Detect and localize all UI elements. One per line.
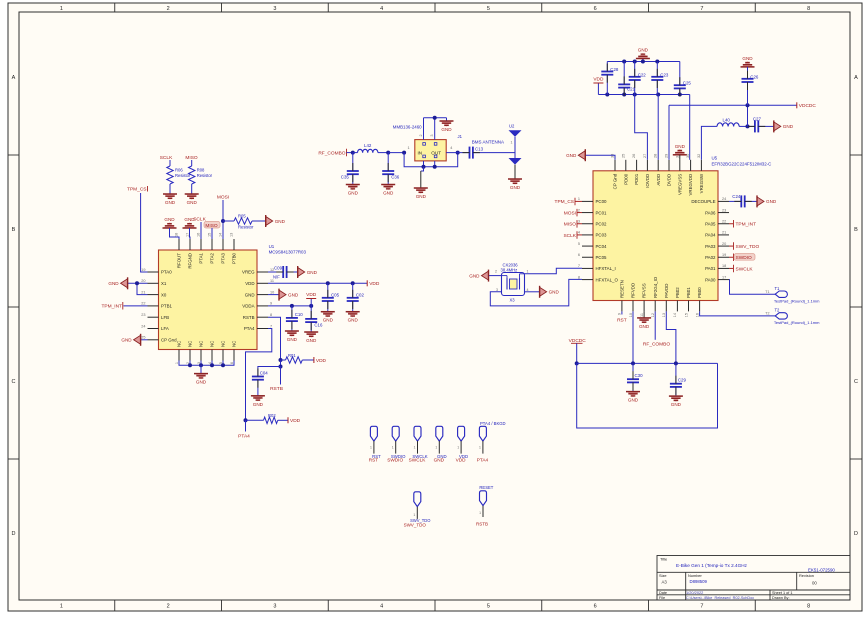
- svg-text:GND: GND: [416, 194, 427, 199]
- svg-text:17: 17: [722, 275, 726, 279]
- ground below antenna: [508, 179, 522, 190]
- svg-text:R02: R02: [268, 413, 276, 418]
- svg-text:Resistor: Resistor: [238, 225, 254, 230]
- svg-text:GND: GND: [549, 290, 560, 295]
- svg-text:14: 14: [219, 233, 223, 237]
- svg-text:PC02: PC02: [596, 221, 608, 226]
- wire L42 to C36 node: [378, 152, 388, 154]
- svg-text:4: 4: [450, 146, 452, 150]
- svg-text:1: 1: [408, 146, 410, 150]
- svg-text:GND: GND: [121, 338, 132, 343]
- junction rail b4: [656, 93, 660, 97]
- junction VDCDC/C26: [746, 103, 750, 107]
- svg-text:VREGSW: VREGSW: [699, 173, 704, 193]
- testpoint TP4 (GND): [434, 426, 447, 462]
- svg-text:17: 17: [186, 233, 190, 237]
- svg-text:U5: U5: [712, 156, 718, 161]
- svg-text:VREGVDD: VREGVDD: [688, 174, 693, 196]
- svg-text:DECOUPLE: DECOUPLE: [691, 199, 715, 204]
- svg-text:4: 4: [380, 604, 383, 610]
- wire TPM_CS to PTA0: [141, 193, 148, 272]
- capacitor C28: [601, 62, 619, 95]
- svg-text:C02: C02: [356, 292, 365, 297]
- junction rail t1: [622, 60, 626, 64]
- svg-text:25: 25: [621, 154, 625, 158]
- svg-text:9: 9: [270, 302, 272, 306]
- svg-text:PD01: PD01: [634, 173, 639, 185]
- svg-text:LFB: LFB: [161, 315, 169, 320]
- testpoint TP1 (RST): [369, 426, 381, 462]
- svg-text:GND: GND: [383, 191, 394, 196]
- svg-text:NC: NC: [188, 341, 193, 347]
- svg-text:GND: GND: [348, 318, 359, 323]
- net label MISO on PC02: [564, 220, 582, 228]
- net label MISO (pulldown R08): [185, 155, 198, 166]
- svg-text:7: 7: [270, 324, 272, 328]
- svg-text:C24: C24: [732, 194, 741, 199]
- junction rail b3: [633, 93, 637, 97]
- svg-text:GND: GND: [165, 200, 176, 205]
- junction RSTB/R01: [279, 358, 283, 362]
- svg-text:RST: RST: [369, 458, 379, 463]
- capacitor C02: [347, 283, 365, 311]
- ground below C35: [346, 185, 360, 196]
- svg-text:8: 8: [270, 313, 272, 317]
- svg-text:GND: GND: [469, 273, 480, 278]
- net label TPM_INT on PA05: [729, 220, 756, 228]
- net label RST on RESETN: [617, 311, 627, 323]
- junction VDD/C02: [351, 281, 355, 285]
- svg-text:HFXTAL_I: HFXTAL_I: [596, 266, 616, 271]
- junction rail b2: [622, 93, 626, 97]
- svg-text:PB02: PB02: [675, 287, 680, 298]
- wire DECOUPLE to C24: [729, 200, 741, 202]
- filter U3 MMB136-2460 body: [393, 124, 453, 161]
- svg-text:Drawn By:: Drawn By:: [772, 596, 790, 600]
- wire R02 to VDD: [278, 419, 288, 421]
- junction NC bus b: [199, 363, 203, 367]
- svg-text:SWDIO: SWDIO: [387, 458, 403, 463]
- wire C24 to gnd: [745, 200, 757, 202]
- svg-text:R05: R05: [238, 214, 246, 219]
- wire RFVDD down: [632, 311, 634, 363]
- U5 bottom pins 9-16: [618, 276, 703, 317]
- wire PA00 to testpad T1: [729, 280, 775, 295]
- svg-text:B: B: [12, 227, 16, 233]
- svg-text:U2: U2: [509, 124, 515, 129]
- svg-text:38.4MHz: 38.4MHz: [501, 268, 518, 273]
- wire VDDA to VDD flag: [310, 299, 312, 306]
- wire rail to IOVDD: [635, 95, 648, 160]
- svg-text:PTA3: PTA3: [221, 252, 226, 263]
- svg-text:SCLK: SCLK: [563, 233, 576, 239]
- svg-text:28: 28: [654, 154, 658, 158]
- wire vdd rail (bottom): [598, 94, 689, 96]
- svg-text:6: 6: [594, 604, 597, 610]
- svg-text:PA04: PA04: [705, 233, 716, 238]
- svg-text:23: 23: [141, 313, 145, 317]
- wire VDCDC link: [747, 105, 749, 126]
- svg-text:14: 14: [673, 313, 677, 317]
- svg-text:D: D: [854, 531, 858, 537]
- capacitor C22: [629, 62, 647, 95]
- ground above pin 18 RFOUT: [163, 217, 177, 228]
- net label SCLK on PTA1: [193, 217, 206, 240]
- svg-text:GND: GND: [434, 458, 445, 463]
- ground below filter: [414, 167, 428, 199]
- svg-text:X1: X1: [161, 281, 167, 286]
- junction NC bus a: [188, 363, 192, 367]
- net label SWDIO on PA02: [729, 254, 755, 262]
- svg-text:PC00: PC00: [596, 199, 608, 204]
- svg-text:GND: GND: [638, 48, 649, 53]
- power flag VDD (R02): [288, 417, 301, 424]
- svg-text:2: 2: [578, 208, 580, 212]
- capacitor C10: [286, 306, 303, 331]
- svg-text:GND: GND: [675, 144, 686, 149]
- antenna U2: [509, 124, 522, 158]
- svg-text:PTA1: PTA1: [199, 252, 204, 263]
- svg-text:15: 15: [208, 233, 212, 237]
- svg-text:DVDD: DVDD: [667, 174, 672, 186]
- wire HFXTAL_O to X3: [490, 279, 582, 305]
- wire to L42: [353, 152, 358, 154]
- svg-text:2: 2: [419, 135, 423, 137]
- wire NC bus to gnd: [200, 365, 202, 373]
- wire PTA3 to R05: [223, 220, 234, 222]
- svg-text:24: 24: [141, 324, 145, 328]
- svg-text:5: 5: [487, 6, 490, 12]
- svg-text:L42: L42: [364, 143, 372, 148]
- svg-text:PTA4: PTA4: [477, 458, 489, 463]
- svg-text:21: 21: [722, 231, 726, 235]
- resistor R05: [234, 214, 254, 230]
- U5 left pins 1-8: [578, 197, 619, 282]
- svg-text:RSTB: RSTB: [243, 315, 255, 320]
- svg-text:3: 3: [273, 604, 276, 610]
- ground below C05: [321, 312, 335, 323]
- svg-text:18: 18: [175, 233, 179, 237]
- svg-text:TPM_CS: TPM_CS: [555, 199, 574, 205]
- label PTA4 / BKGD: [480, 421, 506, 426]
- svg-text:PC04: PC04: [596, 244, 608, 249]
- net label SWCLK on PA01: [729, 265, 753, 273]
- ground below R06: [163, 194, 177, 205]
- svg-text:PA02: PA02: [705, 255, 716, 260]
- svg-text:2: 2: [167, 604, 170, 610]
- svg-text:GND: GND: [639, 324, 650, 329]
- svg-text:N/F: N/F: [273, 275, 280, 280]
- ground below C02: [346, 312, 360, 323]
- svg-text:GND: GND: [287, 337, 298, 342]
- wire OUT to C13: [446, 152, 469, 154]
- svg-text:GND: GND: [742, 56, 753, 61]
- wire C13 to antenna: [473, 152, 515, 154]
- svg-text:GND: GND: [164, 217, 175, 222]
- svg-text:C05: C05: [331, 292, 340, 297]
- ground below NC bus: [194, 374, 208, 385]
- net label RF_COMBO on RF2G4_IO: [643, 311, 670, 347]
- wire X0 joins X1: [137, 283, 148, 294]
- svg-text:D: D: [12, 531, 16, 537]
- svg-text:NC: NC: [177, 341, 182, 347]
- svg-text:NC: NC: [221, 341, 226, 347]
- junction VDCDC rail left: [575, 361, 579, 365]
- svg-text:GND: GND: [766, 199, 777, 204]
- svg-text:TPM_CS: TPM_CS: [127, 187, 146, 193]
- svg-text:16: 16: [695, 313, 699, 317]
- wire L40 to C27 node: [739, 125, 747, 127]
- svg-text:C13: C13: [475, 146, 484, 151]
- svg-text:8: 8: [807, 6, 810, 12]
- svg-text:A: A: [854, 75, 858, 81]
- power flag VDD (U1): [367, 280, 380, 287]
- svg-text:C28: C28: [610, 67, 619, 72]
- wire gnd to RFGND: [189, 228, 192, 239]
- wire VDDA rail: [268, 305, 311, 307]
- IC U1 MC9S8413077R03 body: [159, 244, 307, 350]
- svg-text:VDDA: VDDA: [242, 304, 254, 309]
- svg-text:GND: GND: [671, 402, 682, 407]
- capacitor C23: [651, 62, 669, 95]
- U1 top pins 13-18: [175, 233, 237, 269]
- svg-text:NC: NC: [232, 341, 237, 347]
- svg-text:PAVDD: PAVDD: [664, 284, 669, 298]
- svg-text:2: 2: [167, 6, 170, 12]
- svg-text:RF2G4_IO: RF2G4_IO: [653, 276, 658, 298]
- svg-text:VDD: VDD: [245, 281, 254, 286]
- svg-text:19: 19: [141, 268, 145, 272]
- svg-text:1: 1: [370, 445, 372, 449]
- svg-text:PA01: PA01: [705, 266, 716, 271]
- svg-text:1: 1: [392, 445, 394, 449]
- wire R01 to VDD: [302, 359, 314, 361]
- svg-text:1: 1: [60, 604, 63, 610]
- svg-text:SWDIO: SWDIO: [736, 255, 753, 261]
- wire X3 pin4 to gnd: [525, 291, 540, 293]
- svg-text:GND: GND: [275, 219, 286, 224]
- svg-text:VDCDC: VDCDC: [799, 103, 817, 109]
- capacitor C24: [732, 194, 744, 208]
- svg-text:GND: GND: [783, 124, 794, 129]
- svg-text:PTA4: PTA4: [244, 326, 255, 331]
- net label TPM_CS on PC00: [555, 198, 582, 206]
- svg-text:Number: Number: [688, 573, 703, 578]
- svg-text:PTA0: PTA0: [161, 270, 172, 275]
- wire PAVDD down: [666, 311, 676, 363]
- junction RF_COMBO/C35: [351, 151, 355, 155]
- svg-text:1: 1: [479, 445, 481, 449]
- junction RSTB/C04: [279, 365, 283, 369]
- svg-text:10: 10: [270, 290, 274, 294]
- junction rail/C30: [631, 361, 635, 365]
- svg-text:23: 23: [722, 208, 726, 212]
- svg-text:20: 20: [722, 242, 726, 246]
- svg-text:C22: C22: [638, 73, 647, 78]
- svg-text:3: 3: [430, 135, 434, 137]
- capacitor pin leads: [258, 64, 765, 395]
- net label MOSI on PTA3: [217, 195, 229, 201]
- junction PTA3/R05: [221, 219, 225, 223]
- svg-text:7: 7: [700, 6, 703, 12]
- wire HFXTAL_I to X3: [525, 268, 583, 274]
- capacitor C26: [741, 56, 759, 105]
- svg-text:C35: C35: [341, 175, 350, 180]
- svg-text:L40: L40: [723, 117, 731, 122]
- junction PTA4/R02: [244, 418, 248, 422]
- wire filter top gnd: [424, 118, 447, 140]
- testpoint TP7 (SWV_TDO): [404, 492, 431, 528]
- svg-text:3: 3: [578, 220, 580, 224]
- net label RF_COMBO (filter in): [318, 149, 352, 157]
- resistor R06: [167, 166, 191, 184]
- svg-text:R01: R01: [288, 353, 296, 358]
- svg-text:GND: GND: [196, 380, 207, 385]
- svg-text:6: 6: [578, 253, 580, 257]
- wire VREG to C09: [268, 271, 283, 273]
- svg-text:HFXTAL_O: HFXTAL_O: [596, 277, 619, 282]
- svg-text:MOSI: MOSI: [564, 210, 576, 216]
- svg-text:GND: GND: [510, 185, 521, 190]
- svg-text:PA05: PA05: [705, 221, 716, 226]
- capacitor C04: [252, 371, 268, 396]
- svg-text:VDD: VDD: [593, 77, 604, 83]
- resistor R02: [246, 413, 278, 424]
- label BMS ANTENNA: [458, 134, 505, 145]
- svg-text:13: 13: [230, 233, 234, 237]
- svg-text:C23: C23: [660, 73, 669, 78]
- testpad T1: [765, 286, 820, 304]
- svg-text:C25: C25: [683, 80, 692, 85]
- svg-text:PC01: PC01: [596, 210, 608, 215]
- svg-text:25: 25: [141, 336, 145, 340]
- svg-text:IN: IN: [418, 150, 423, 155]
- svg-text:PB01: PB01: [686, 287, 691, 298]
- junction filter loop b: [433, 165, 437, 169]
- U5 top pins: [611, 154, 705, 196]
- testpoint TP5 (VDD): [456, 426, 468, 462]
- power flag VDCDC (bottom): [569, 338, 587, 364]
- svg-text:A: A: [12, 75, 16, 81]
- svg-text:PTA4 / BKGD: PTA4 / BKGD: [480, 421, 506, 426]
- junction VDD/C05: [326, 281, 330, 285]
- svg-text:VREG: VREG: [242, 270, 255, 275]
- svg-text:1: 1: [413, 513, 415, 517]
- junction rail b1: [605, 93, 609, 97]
- svg-text:RSTB: RSTB: [476, 522, 488, 527]
- svg-text:Sheet 1 of 1: Sheet 1 of 1: [772, 591, 792, 595]
- capacitor C35: [341, 153, 359, 185]
- ground below C29: [669, 396, 683, 407]
- svg-text:T1: T1: [765, 290, 769, 294]
- svg-text:TestPad_(Round)_1.1mm: TestPad_(Round)_1.1mm: [774, 320, 820, 325]
- svg-text:C29: C29: [678, 377, 687, 382]
- junction VDDA/C16: [309, 304, 313, 308]
- capacitor C30: [627, 363, 643, 391]
- wire X3 pin2 to gnd: [489, 275, 502, 277]
- ground below RFVSS: [637, 311, 651, 329]
- svg-text:GND: GND: [628, 398, 639, 403]
- svg-text:12: 12: [651, 313, 655, 317]
- wire RSTB down: [280, 360, 282, 367]
- ground right of R05: [266, 215, 286, 227]
- svg-text:15: 15: [684, 313, 688, 317]
- ground right of C09: [298, 266, 318, 278]
- power flag VDD (decoupling): [593, 77, 604, 95]
- svg-text:B: B: [854, 227, 858, 233]
- svg-text:SCLK: SCLK: [160, 155, 173, 161]
- svg-text:RST: RST: [617, 317, 627, 323]
- wire VDCDC loop: [577, 363, 718, 428]
- svg-text:1: 1: [527, 270, 529, 274]
- capacitor C09 (N/F): [273, 266, 287, 280]
- svg-text:2: 2: [495, 270, 497, 274]
- svg-text:20: 20: [141, 279, 145, 283]
- svg-text:22: 22: [722, 220, 726, 224]
- wire RSTB route: [268, 317, 281, 360]
- svg-text:CP Gnd: CP Gnd: [161, 338, 177, 343]
- title block: [657, 556, 850, 601]
- svg-text:NC: NC: [210, 341, 215, 347]
- svg-text:C26: C26: [750, 74, 759, 79]
- power flag VDCDC: [797, 102, 817, 109]
- wire filter bottom stubs: [424, 161, 435, 167]
- svg-text:PTB1: PTB1: [161, 304, 173, 309]
- svg-text:LFA: LFA: [161, 326, 169, 331]
- svg-text:4: 4: [527, 288, 529, 292]
- svg-text:19: 19: [722, 253, 726, 257]
- svg-text:C: C: [12, 379, 16, 385]
- svg-text:GND: GND: [187, 200, 198, 205]
- svg-text:1: 1: [511, 141, 513, 145]
- svg-text:PA00: PA00: [705, 277, 716, 282]
- svg-text:SWV_TDO: SWV_TDO: [736, 244, 760, 250]
- svg-text:PD00: PD00: [623, 173, 628, 185]
- junction NC bus d: [221, 363, 225, 367]
- svg-text:X0: X0: [161, 292, 167, 297]
- svg-text:RESET: RESET: [479, 485, 493, 490]
- ground below C16: [304, 332, 318, 343]
- wire PTA4 route: [246, 329, 272, 421]
- svg-text:8: 8: [578, 275, 580, 279]
- capacitor C27: [748, 117, 762, 133]
- svg-text:PB00: PB00: [697, 287, 702, 298]
- svg-text:18: 18: [722, 264, 726, 268]
- svg-text:TestPad_(Round)_1.1mm: TestPad_(Round)_1.1mm: [774, 299, 820, 304]
- wire NC bus: [179, 361, 234, 366]
- svg-text:EK51-072590: EK51-072590: [808, 568, 835, 573]
- svg-text:C: C: [854, 379, 858, 385]
- junction rail t3: [641, 60, 645, 64]
- inductor L42: [358, 143, 378, 153]
- ground right of C24: [757, 195, 777, 207]
- wire filter bottom loop: [404, 153, 458, 167]
- svg-text:11: 11: [270, 279, 274, 283]
- svg-text:C09: C09: [274, 266, 283, 271]
- capacitor C21: [618, 62, 635, 95]
- svg-text:1: 1: [457, 445, 459, 449]
- svg-text:GND: GND: [245, 292, 255, 297]
- svg-text:E-Bike Gen 1 (Temp-io Tx 2.4GH: E-Bike Gen 1 (Temp-io Tx 2.4GHz: [676, 563, 748, 568]
- wire R08 to gnd: [191, 184, 193, 194]
- svg-text:8: 8: [807, 604, 810, 610]
- svg-text:PA06: PA06: [705, 210, 716, 215]
- svg-text:J1: J1: [458, 134, 463, 139]
- svg-text:22: 22: [141, 302, 145, 306]
- capacitor C36: [382, 153, 400, 185]
- net label TPM_INT on PTB1: [101, 302, 147, 310]
- U1 bottom pins 1-6 (NC): [175, 341, 237, 364]
